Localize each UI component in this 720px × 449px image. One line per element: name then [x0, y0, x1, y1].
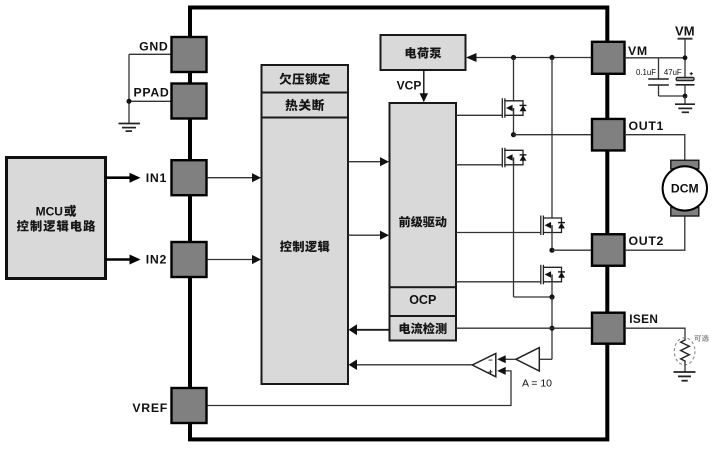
- wire VM rail down: [684, 39, 686, 78]
- svg-text:OCP: OCP: [409, 293, 436, 307]
- svg-text:OUT2: OUT2: [629, 234, 665, 248]
- pin IN2: [172, 242, 207, 277]
- wire cap bottoms to ground: [659, 95, 686, 97]
- IC boundary outline: [190, 8, 607, 440]
- pin ISEN: [592, 313, 625, 344]
- svg-text:0.1uF: 0.1uF: [636, 68, 656, 77]
- svg-text:47uF: 47uF: [664, 68, 682, 77]
- svg-text:GND: GND: [139, 40, 168, 54]
- comparator U1 triangle: [472, 353, 496, 376]
- pin VREF: [172, 388, 207, 423]
- svg-text:VREF: VREF: [132, 401, 168, 415]
- junction dot PPAD wire: [127, 99, 132, 104]
- junction dot OUT2 node: [549, 248, 554, 253]
- wire OUT1 pin to motor: [625, 135, 685, 162]
- OCP block: [390, 287, 457, 316]
- polarity + mark: [690, 73, 693, 75]
- wire VREF to comparator plus input: [207, 371, 512, 406]
- amplifier A1 gain stage (A=10) triangle: [516, 348, 539, 371]
- svg-text:MCU: MCU: [36, 205, 63, 219]
- svg-text:−: −: [488, 355, 493, 364]
- svg-text:PPAD: PPAD: [133, 86, 169, 100]
- gate wire pre-driver to Q3: [456, 232, 541, 234]
- svg-text:+: +: [488, 368, 493, 377]
- MOSFET Q4 (low-side OUT2): [541, 265, 562, 285]
- pin VM: [592, 42, 625, 74]
- svg-text:A = 10: A = 10: [522, 377, 552, 389]
- svg-text:VM: VM: [628, 44, 648, 58]
- wire R1 to ground: [684, 363, 686, 372]
- wire arrow MCU to IN1: [105, 176, 130, 179]
- control logic block 控制逻辑: [262, 118, 349, 385]
- junction dot VM line at half-bridge 1: [511, 55, 516, 60]
- wire VM line down to Q1 drain: [513, 58, 515, 102]
- wire VCP arrow charge pump to pre-driver: [423, 70, 425, 95]
- charge pump block 电荷泵: [381, 35, 466, 70]
- ground symbol (VM caps): [675, 103, 695, 105]
- capacitor C1 0.1uF: [658, 58, 660, 79]
- wire Q2 source down to sense junction: [513, 158, 515, 298]
- wire A1 output to comparator minus input: [506, 358, 516, 360]
- VM supply rail bar: [678, 38, 693, 40]
- wire VM pin to bypass caps: [625, 57, 686, 59]
- wire ISEN sense down-leg into A1 input: [539, 358, 552, 360]
- UVLO block 欠压锁定: [262, 65, 349, 93]
- junction dot VM line at half-bridge 2: [549, 55, 554, 60]
- svg-text:ISEN: ISEN: [629, 312, 658, 326]
- svg-text:VM: VM: [675, 23, 695, 38]
- wire VM pin to charge pump with arrow: [472, 57, 591, 59]
- junction dot cap ground node: [683, 94, 688, 99]
- wire arrow MCU to IN2: [105, 258, 130, 261]
- pin OUT2: [592, 234, 625, 266]
- svg-text:IN1: IN1: [146, 171, 167, 185]
- optional label 可选: [694, 335, 708, 342]
- pin PPAD: [172, 84, 207, 119]
- wire Q3 source to OUT2 node: [551, 225, 553, 250]
- wire PPAD pin to junction: [129, 100, 172, 102]
- optional dashed ellipse around R1: [674, 338, 695, 365]
- wire vertical GND-PPAD: [128, 54, 130, 123]
- wire current-sense block to control logic: [356, 329, 390, 331]
- junction dot VM cap node: [683, 55, 688, 60]
- thermal shutdown block 热关断: [262, 93, 349, 118]
- pin OUT1: [592, 119, 625, 151]
- motor brush top: [671, 160, 699, 169]
- MCU block (MCU或 控制逻辑电路): [7, 158, 106, 279]
- svg-text:IN2: IN2: [146, 253, 167, 267]
- current sense block 电流检测: [390, 316, 457, 341]
- wire Q1 source to OUT1 node: [513, 108, 515, 135]
- gate wire pre-driver to Q1: [456, 114, 502, 116]
- motor brush bottom: [671, 208, 699, 217]
- wire IN1 pin to control logic: [207, 177, 256, 179]
- wire joining Q2/Q4 sources: [514, 296, 553, 298]
- wire GND pin to ground stub: [129, 53, 172, 55]
- junction dot sense node: [549, 294, 554, 299]
- wire control logic to pre-driver (lower): [348, 234, 383, 236]
- svg-text:VCP: VCP: [397, 79, 422, 93]
- pin GND: [172, 37, 207, 72]
- wire OUT2 node to OUT2 pin: [552, 249, 591, 251]
- wire OUT1 node to OUT1 pin: [514, 134, 592, 136]
- wire OUT2 pin to motor: [625, 214, 685, 250]
- capacitor C2 47uF (polarized): [676, 77, 694, 80]
- sense resistor R1 (optional) zigzag: [681, 339, 690, 363]
- svg-text:DCM: DCM: [671, 182, 699, 196]
- MCU block label line 2: 控制逻辑电路: [17, 220, 95, 232]
- gate wire pre-driver to Q2: [456, 164, 502, 166]
- MOSFET Q1 (high-side OUT1): [502, 98, 523, 118]
- junction dot on ISEN line: [549, 326, 554, 331]
- junction dot OUT1 node: [511, 132, 516, 137]
- ground symbol (GND/PPAD): [119, 123, 141, 125]
- svg-text:OUT1: OUT1: [629, 119, 665, 133]
- wire comparator output to control logic: [355, 364, 473, 366]
- gate wire pre-driver to Q4: [456, 281, 541, 283]
- MOSFET Q2 (low-side OUT1): [502, 148, 523, 168]
- wire VM line down to Q3 drain: [551, 58, 553, 219]
- wire control logic to pre-driver (upper): [348, 161, 383, 163]
- pre-driver block 前级驱动: [390, 103, 457, 288]
- wire ISEN pin to sense resistor: [625, 328, 686, 338]
- wire sense node down to ISEN line: [551, 297, 553, 359]
- pin IN1: [172, 160, 207, 195]
- wire Q4 source down: [551, 275, 553, 298]
- wire current-sense block to ISEN pin: [456, 327, 591, 329]
- DC motor DCM: [663, 166, 707, 210]
- MOSFET Q3 (high-side OUT2): [541, 216, 562, 236]
- ground symbol (sense resistor): [674, 371, 696, 373]
- wire IN2 pin to control logic: [207, 259, 256, 261]
